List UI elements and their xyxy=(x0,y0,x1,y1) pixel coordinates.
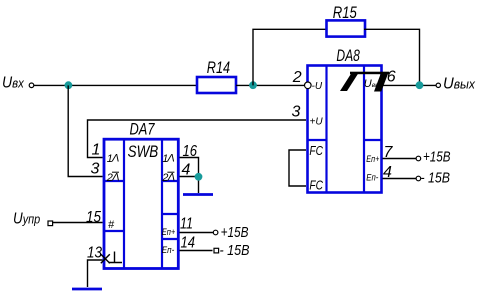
resistor R15 xyxy=(327,4,366,37)
ground bar DA7 pin13 xyxy=(72,288,102,291)
svg-text:FC: FC xyxy=(309,179,323,193)
svg-text:+15В: +15В xyxy=(221,225,249,241)
svg-text:Еп+: Еп+ xyxy=(366,154,379,164)
svg-text:14: 14 xyxy=(181,235,196,252)
wire node B up to R15 left xyxy=(253,29,326,85)
svg-text:2: 2 xyxy=(292,69,302,86)
limiter symbol slash 2 DA8 xyxy=(374,74,388,92)
svg-text:FC: FC xyxy=(309,144,323,158)
node Uctrl terminal square xyxy=(48,221,53,226)
node Uin terminal xyxy=(2,74,34,91)
wire junction A down to DA7 pin3 xyxy=(68,85,102,176)
svg-text:Uупр: Uупр xyxy=(13,211,40,228)
svg-text:+15В: +15В xyxy=(423,150,451,166)
svg-text:Λ: Λ xyxy=(111,153,119,165)
wire Uctrl to DA7 pin15 xyxy=(53,222,103,224)
node +15V terminal DA7 xyxy=(213,230,218,235)
svg-text:Λ: Λ xyxy=(166,153,174,165)
svg-text:Λ: Λ xyxy=(167,172,175,184)
svg-text:Uвых: Uвых xyxy=(443,75,475,92)
svg-text:-U: -U xyxy=(312,81,323,92)
svg-text:13: 13 xyxy=(87,245,102,262)
svg-text:- 15В: - 15В xyxy=(220,243,250,259)
op-amp DA8 xyxy=(308,47,382,193)
resistor R14 xyxy=(197,59,236,93)
wire DA7 pin16 right and down xyxy=(180,158,199,194)
pin 2 inversion circle DA8 xyxy=(305,82,312,89)
svg-text:- 15В: - 15В xyxy=(421,170,451,186)
svg-text:3: 3 xyxy=(292,104,301,121)
svg-text:DA8: DA8 xyxy=(336,47,360,65)
node +15V terminal DA8 xyxy=(416,156,421,161)
limiter symbol slash 1 DA8 xyxy=(340,73,359,91)
wire DA7 pin1 up and to DA8 pin3 xyxy=(88,120,307,158)
svg-text:Uвх: Uвх xyxy=(2,74,24,91)
wire DA7 pin13 to ground xyxy=(88,260,103,287)
wire FC bracket DA8 xyxy=(289,150,306,186)
wire R15 right down to output node xyxy=(364,29,420,82)
svg-text:DA7: DA7 xyxy=(130,121,156,139)
node Uout terminal xyxy=(436,75,475,92)
svg-text:Еп-: Еп- xyxy=(162,245,175,255)
node junction pin4/pin16 DA7 xyxy=(195,173,203,181)
wire DA8 pin6 to Uout terminal xyxy=(381,84,436,86)
wire DA8 pin4 to -15V xyxy=(383,178,417,180)
wire input line Uin to R14 xyxy=(34,84,197,86)
svg-text:1: 1 xyxy=(92,142,101,159)
limiter symbol top bar DA8 xyxy=(350,72,389,75)
wire DA7 pin11 to +15V xyxy=(180,232,214,234)
svg-text:Еп+: Еп+ xyxy=(162,227,176,237)
node output junction xyxy=(416,81,424,89)
cross mark X at pin 13 xyxy=(101,254,110,263)
wire R14 to DA8 pin2 xyxy=(236,84,304,86)
svg-text:15: 15 xyxy=(86,209,101,226)
svg-text:Λ: Λ xyxy=(111,172,119,184)
svg-text:+U: +U xyxy=(310,117,324,128)
node B junction R14/R15 xyxy=(249,81,257,89)
wire DA7 pin4 to riser xyxy=(180,176,199,178)
svg-text:#: # xyxy=(108,219,115,231)
ground bar DA7 pins 16/4 xyxy=(183,193,213,196)
ground symbol inside cell DA7 xyxy=(109,252,123,263)
wire DA8 pin7 to +15V xyxy=(383,158,417,160)
svg-text:3: 3 xyxy=(91,161,100,178)
svg-text:R14: R14 xyxy=(207,59,230,77)
switch DA7 xyxy=(104,121,178,269)
svg-text:11: 11 xyxy=(180,216,193,233)
svg-text:SWB: SWB xyxy=(128,142,159,161)
wire DA7 pin14 to -15V xyxy=(180,250,213,252)
node input junction A xyxy=(65,81,73,89)
node -15V terminal square DA7 xyxy=(214,248,219,253)
svg-text:R15: R15 xyxy=(333,4,358,22)
svg-text:6: 6 xyxy=(387,68,396,85)
node -15V terminal DA8 xyxy=(416,176,421,181)
svg-text:Еп-: Еп- xyxy=(366,172,378,182)
